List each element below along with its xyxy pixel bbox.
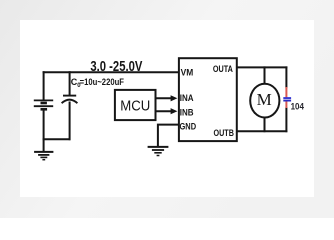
wire: driver GND pin stub: [158, 125, 179, 147]
svg-text:OUTB: OUTB: [214, 128, 235, 138]
capacitor C0 top plate: [63, 95, 76, 97]
capacitor C1 top red lead: [285, 87, 287, 98]
ground symbol G2 below driver GND pin: [148, 147, 169, 156]
wire: MCU to INB control line: [156, 110, 173, 112]
capacitor C1 upper blue plate: [283, 97, 291, 99]
svg-text:104: 104: [291, 101, 304, 111]
arrowhead: INA control line: [171, 95, 178, 101]
capacitor C0 curved bottom plate: [62, 100, 78, 104]
svg-text:M: M: [257, 90, 272, 109]
svg-text:INB: INB: [180, 107, 194, 117]
svg-text:GND: GND: [180, 121, 197, 131]
motor M1 body: [250, 84, 279, 118]
wire: bottom return wire battery to capacitor C0: [43, 138, 71, 140]
svg-text:MCU: MCU: [120, 97, 150, 114]
wire: MCU to INA control line: [156, 97, 173, 99]
arrowhead: INB control line: [171, 108, 178, 114]
svg-text:C0=10u~220uF: C0=10u~220uF: [71, 77, 125, 89]
motor driver U1 box: [179, 58, 237, 141]
schematic white canvas: [20, 20, 314, 197]
svg-text:3.0 -25.0V: 3.0 -25.0V: [90, 59, 142, 75]
MCU U2 box: [115, 90, 156, 120]
wire: right branch lower segment from capacitor C1: [285, 107, 287, 132]
wire: capacitor C0 bottom lead: [69, 102, 71, 141]
capacitor C1 bottom red lead: [285, 101, 287, 108]
wire: right branch upper segment to capacitor C1: [285, 66, 287, 88]
capacitor C1 lower blue plate: [283, 100, 291, 102]
ground symbol G1 below battery: [34, 152, 53, 160]
wire: OUTB to motor bottom: [237, 130, 288, 132]
wire: motor M1 top stub: [264, 66, 266, 84]
wire: battery negative stem down to ground: [43, 110, 45, 152]
wire: OUTA to motor top: [237, 66, 288, 68]
battery BT1 positive long plate (cell 2): [34, 105, 53, 107]
battery BT1 positive long plate: [34, 99, 53, 101]
wire: battery positive stem: [43, 71, 45, 99]
svg-text:VM: VM: [181, 67, 194, 77]
battery BT1 negative short plate (cell 1): [41, 102, 47, 105]
svg-text:OUTA: OUTA: [213, 64, 233, 74]
svg-text:INA: INA: [180, 93, 194, 103]
wire: VM supply rail from battery to driver VM pin: [43, 71, 179, 73]
battery BT1 negative short plate (cell 2): [41, 108, 48, 111]
wire: motor M1 bottom stub: [264, 117, 266, 132]
wire: capacitor C0 top lead: [69, 71, 71, 95]
